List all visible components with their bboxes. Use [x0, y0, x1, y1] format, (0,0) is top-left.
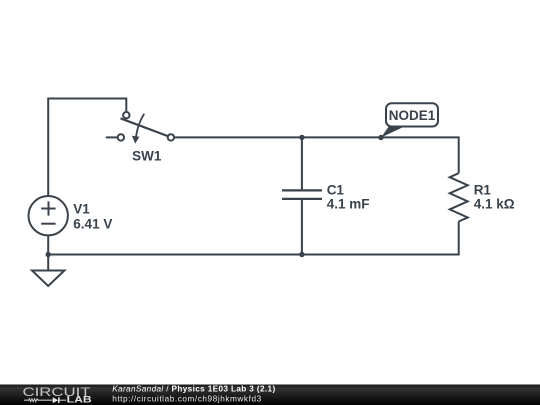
svg-text:4.1 mF: 4.1 mF	[327, 197, 370, 212]
svg-text:R1: R1	[474, 183, 492, 198]
label R1 and value 4.1 kOhm	[474, 183, 515, 212]
svg-text:V1: V1	[73, 202, 90, 217]
node NODE1 dot on top rail	[378, 135, 383, 140]
capacitor C1 plates	[282, 190, 322, 199]
voltage source V1 circle	[29, 196, 68, 235]
label V1 and value 6.41 V	[73, 202, 112, 232]
svg-text:NODE1: NODE1	[389, 108, 436, 123]
svg-text:SW1: SW1	[132, 148, 162, 163]
node NODE1 callout tail	[381, 126, 407, 138]
node junction dot at C1 bottom	[299, 252, 304, 257]
capacitor C1 branch wire bottom	[301, 200, 303, 255]
footer bar	[0, 385, 540, 405]
node junction dot at V1 bottom	[46, 252, 51, 257]
CircuitLab logo resistor-diode squiggle	[24, 397, 66, 403]
node junction dot at C1 top	[299, 135, 304, 140]
wire stub of SW1 lower throw (unconnected)	[106, 136, 118, 138]
resistor R1 zigzag	[450, 173, 468, 221]
wire main top rail from SW1 common to right corner and down to R1	[174, 137, 459, 173]
switch SW1	[118, 112, 174, 144]
node NODE1 callout box	[386, 103, 438, 126]
wire from R1 bottom around bottom rail back to V1	[48, 222, 459, 255]
svg-text:6.41 V: 6.41 V	[73, 217, 112, 232]
wire from V1 top up and over to switch SW1 top throw	[48, 99, 126, 197]
svg-text:KaranSandal / Physics 1E03 Lab: KaranSandal / Physics 1E03 Lab 3 (2.1)	[112, 385, 275, 394]
wire from V1 bottom to ground	[47, 235, 49, 269]
label C1 and value 4.1 mF	[327, 183, 370, 212]
svg-text:LAB: LAB	[67, 394, 92, 404]
ground	[32, 271, 64, 287]
capacitor C1 branch wire top	[301, 137, 303, 189]
svg-text:C1: C1	[327, 183, 345, 198]
svg-text:4.1 kΩ: 4.1 kΩ	[474, 197, 515, 212]
svg-text:http://circuitlab.com/ch98jhkm: http://circuitlab.com/ch98jhkmwkfd3	[112, 394, 262, 403]
